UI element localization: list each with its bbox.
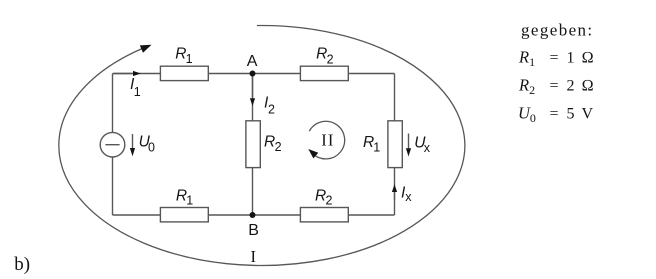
svg-text:2: 2 — [326, 194, 333, 208]
svg-text:II: II — [321, 130, 334, 149]
svg-text:R1=1Ω: R1=1Ω — [518, 48, 594, 70]
svg-text:R2=2Ω: R2=2Ω — [518, 76, 594, 98]
given values text — [518, 21, 594, 126]
arrow Ix — [392, 184, 412, 204]
svg-text:gegeben:: gegeben: — [521, 21, 594, 40]
resistor R1 top — [160, 46, 208, 81]
svg-text:1: 1 — [186, 52, 193, 66]
resistor R2 bottom — [300, 187, 348, 222]
svg-text:b): b) — [14, 254, 30, 275]
svg-text:0: 0 — [148, 141, 155, 155]
svg-text:1: 1 — [373, 140, 380, 154]
voltage source U0 — [100, 132, 125, 157]
arrow Ux — [406, 134, 431, 157]
wire top — [113, 73, 395, 75]
resistor R1 bottom — [160, 187, 208, 222]
arrow U0 — [130, 133, 155, 156]
svg-text:I: I — [251, 247, 257, 266]
resistor R2 middle vertical — [246, 121, 282, 168]
svg-text:A: A — [247, 53, 258, 70]
arrow I1 — [114, 71, 141, 99]
mesh loop I ellipse — [59, 25, 465, 266]
svg-text:1: 1 — [134, 85, 141, 99]
svg-text:R: R — [264, 134, 275, 151]
svg-text:B: B — [248, 222, 259, 239]
svg-text:2: 2 — [327, 52, 334, 66]
wire middle A-B — [252, 74, 254, 216]
svg-text:x: x — [424, 141, 431, 155]
svg-text:U0=5V: U0=5V — [518, 104, 594, 126]
node B — [248, 212, 259, 239]
wire left — [112, 74, 114, 216]
arrow I2 — [250, 76, 275, 116]
svg-text:2: 2 — [268, 102, 275, 116]
svg-text:1: 1 — [186, 194, 193, 208]
svg-text:2: 2 — [275, 140, 282, 154]
wire bottom — [113, 214, 395, 216]
wire right — [394, 74, 396, 216]
node A — [247, 53, 258, 77]
mesh loop II circle — [308, 121, 344, 159]
svg-text:x: x — [405, 190, 412, 204]
resistor R2 top — [300, 46, 348, 81]
resistor R1 right vertical — [363, 121, 402, 168]
